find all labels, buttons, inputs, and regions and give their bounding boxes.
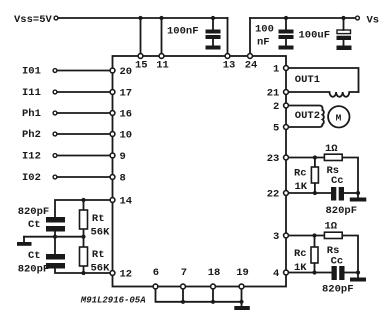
svg-text:24: 24 — [245, 59, 258, 71]
svg-text:100nF: 100nF — [167, 26, 199, 38]
wire lead Rc1 top — [314, 158, 316, 168]
wire lead capacitor C2 top — [285, 18, 287, 30]
svg-text:12: 12 — [120, 269, 133, 281]
ground stub upper network — [357, 193, 359, 198]
junction Ct mid rail — [53, 235, 57, 239]
pin 11 — [159, 54, 164, 59]
terminal Vs — [356, 16, 360, 20]
svg-text:Vss=5V: Vss=5V — [14, 14, 53, 26]
svg-text:16: 16 — [120, 109, 133, 121]
wire lead resistor Rt1 top — [83, 200, 85, 210]
IC U1 body — [113, 56, 287, 287]
svg-text:21: 21 — [267, 88, 280, 100]
svg-text:Rc: Rc — [294, 248, 307, 260]
wire lead resistor Rt2 bottom — [83, 266, 85, 273]
wire pin 3 to Rs2 — [286, 235, 324, 237]
junction Rc2 top — [312, 233, 316, 237]
junction Vss-11 — [159, 16, 163, 20]
svg-text:1Ω: 1Ω — [325, 143, 338, 155]
svg-text:2: 2 — [273, 101, 279, 113]
svg-text:56K: 56K — [91, 227, 111, 239]
pin 19 — [239, 284, 244, 289]
wire pin 2 to load OUT2 top — [286, 106, 323, 111]
svg-text:1: 1 — [273, 64, 279, 76]
ground C2 — [279, 46, 294, 50]
resistor Rt2 56K — [80, 247, 88, 266]
pin 24 — [248, 54, 253, 59]
wire input Ph2 — [57, 133, 112, 135]
wire lead resistor Rt1 bottom — [83, 229, 85, 237]
junction Rt mid rail — [81, 235, 85, 239]
pin 22 — [284, 191, 289, 196]
pin 23 — [284, 155, 289, 160]
svg-text:820pF: 820pF — [326, 205, 358, 217]
wire pin 19 drop to ground — [241, 287, 243, 307]
svg-text:11: 11 — [156, 59, 169, 71]
terminal I02 — [53, 175, 57, 179]
wire lead to pin 15 — [140, 18, 142, 56]
wire input I01 — [57, 70, 112, 72]
wire Cc1 to ground node — [344, 192, 358, 194]
wire Rs2 to corner — [342, 236, 358, 273]
wire input Ph1 — [57, 112, 112, 114]
wire Rs1 to corner — [342, 158, 358, 194]
wire pin 4 to Cc2 — [286, 272, 332, 274]
svg-text:I11: I11 — [22, 87, 41, 99]
svg-text:Rt: Rt — [92, 213, 105, 225]
capacitor Cc1 820pF plates — [331, 187, 336, 201]
wire lead capacitor C3 top — [343, 18, 345, 30]
pin 15 — [138, 54, 143, 59]
svg-text:I02: I02 — [22, 172, 41, 184]
capacitor Cc2 820pF plates — [332, 266, 337, 280]
ground bottom rail — [234, 306, 250, 310]
junction Vss-15 — [138, 16, 142, 20]
svg-text:23: 23 — [267, 153, 280, 165]
svg-text:56K: 56K — [91, 263, 111, 275]
wire capacitor C1 mid stub — [212, 38, 214, 46]
svg-text:I01: I01 — [22, 65, 41, 77]
pin 16 — [110, 111, 115, 116]
wire lead to pin 24 — [249, 18, 251, 56]
junction Vs-C3 — [341, 16, 345, 20]
wire capacitor Ct1 bottom lead — [54, 232, 56, 237]
junction gnd node upper — [356, 191, 360, 195]
svg-text:820pF: 820pF — [18, 264, 50, 276]
pin 18 — [211, 284, 216, 289]
svg-text:17: 17 — [120, 88, 133, 100]
svg-text:Ct: Ct — [28, 219, 41, 231]
ground stub lower network — [357, 273, 359, 278]
svg-text:100: 100 — [255, 24, 274, 36]
wire capacitor Ct2 top lead — [54, 237, 56, 254]
wire load OUT2 bottom to pin 5 — [286, 124, 323, 127]
pin 1 — [284, 66, 289, 71]
svg-text:nF: nF — [257, 37, 270, 49]
svg-text:1K: 1K — [295, 181, 308, 193]
wire lead capacitor C1 top — [212, 18, 214, 30]
junction Rc2 bottom — [312, 270, 316, 274]
svg-text:1K: 1K — [294, 262, 307, 274]
wire capacitor C3 mid stub — [343, 40, 345, 46]
wire pin 6 drop to ground rail — [156, 287, 242, 302]
svg-text:4: 4 — [273, 268, 279, 280]
svg-text:6: 6 — [153, 267, 159, 279]
pin 14 — [110, 198, 115, 203]
capacitor C3 100uF plus plate — [337, 30, 351, 34]
wire pin 22 to Cc1 — [286, 192, 331, 194]
resistor Rs2 1ohm — [324, 232, 342, 238]
pin 12 — [110, 271, 115, 276]
pin 3 — [284, 233, 289, 238]
resistor Rs1 1ohm — [324, 154, 342, 160]
junction rail pin 7 — [181, 300, 185, 304]
svg-text:18: 18 — [208, 267, 221, 279]
wire lead Rc2 top — [314, 236, 316, 248]
pin 10 — [110, 132, 115, 137]
resistor Rc1 1K — [311, 167, 318, 183]
svg-text:OUT2: OUT2 — [295, 110, 320, 122]
svg-text:5: 5 — [273, 123, 279, 135]
svg-text:Cc: Cc — [331, 256, 344, 268]
svg-text:100uF: 100uF — [299, 30, 331, 42]
ground timing network — [17, 242, 32, 246]
wire pin 23 to Rs1 — [286, 157, 324, 159]
svg-text:820pF: 820pF — [18, 206, 50, 218]
junction gnd node lower — [356, 270, 360, 274]
svg-text:I12: I12 — [22, 150, 41, 162]
junction Rc1 top — [313, 155, 317, 159]
svg-text:M: M — [336, 112, 342, 123]
svg-text:Ph2: Ph2 — [22, 129, 41, 141]
pin 20 — [110, 68, 115, 73]
svg-text:Rc: Rc — [294, 168, 307, 180]
pin 21 — [284, 90, 289, 95]
pin 4 — [284, 270, 289, 275]
svg-text:Ct: Ct — [28, 250, 41, 262]
wire capacitor C2 mid stub — [285, 38, 287, 46]
wire input I12 — [57, 155, 112, 157]
svg-text:820pF: 820pF — [322, 284, 354, 296]
motor M — [328, 106, 349, 127]
capacitor C3 100uF minus plate — [337, 36, 352, 40]
resistor Rt1 56K — [80, 210, 88, 229]
svg-text:8: 8 — [120, 173, 126, 185]
junction Vs-C2 — [284, 16, 288, 20]
junction rail pin 19 — [239, 300, 243, 304]
svg-text:19: 19 — [236, 267, 249, 279]
svg-text:1Ω: 1Ω — [325, 221, 338, 233]
svg-text:15: 15 — [135, 59, 148, 71]
wire lead Rc1 bottom — [314, 183, 316, 193]
pin 7 — [181, 284, 186, 289]
wire lead to pin 13 — [227, 18, 229, 56]
wire lead resistor Rt2 top — [83, 237, 85, 247]
pin 9 — [110, 153, 115, 158]
ground stub timing — [23, 237, 25, 242]
wire Vs rail — [250, 17, 356, 19]
wire Cc2 to ground node — [345, 272, 359, 274]
junction Rt1 top — [81, 198, 85, 202]
pin 17 — [110, 90, 115, 95]
wire pin 12 to timing network — [55, 269, 113, 274]
inductor winding OUT2 — [323, 110, 324, 124]
svg-text:9: 9 — [120, 151, 126, 163]
ground C3 — [337, 46, 352, 51]
svg-text:14: 14 — [120, 196, 133, 208]
terminal I01 — [53, 69, 57, 73]
pin 13 — [225, 54, 230, 59]
pin 5 — [284, 125, 289, 130]
capacitor Ct1 820pF plates — [46, 217, 65, 223]
terminal Vss — [54, 16, 58, 20]
junction Rc1 bottom — [313, 191, 317, 195]
capacitor C1 100nF plates — [206, 30, 221, 34]
svg-text:Vs: Vs — [367, 15, 380, 27]
pin 6 — [153, 284, 158, 289]
svg-text:7: 7 — [181, 267, 187, 279]
wire input I02 — [57, 176, 112, 178]
capacitor Ct2 820pF plates — [46, 254, 65, 260]
capacitor C2 100nF plates — [279, 30, 294, 34]
ground C1 — [206, 46, 221, 50]
wire pin 1 to load OUT1 — [286, 68, 359, 92]
junction rail pin 18 — [211, 300, 215, 304]
junction Rt2 bottom — [81, 271, 85, 275]
svg-text:M91L2916-05A: M91L2916-05A — [80, 295, 146, 305]
svg-text:Rt: Rt — [92, 249, 105, 261]
terminal Ph2 — [53, 132, 57, 136]
pin 2 — [284, 103, 289, 108]
svg-text:Ph1: Ph1 — [22, 108, 41, 120]
svg-text:3: 3 — [273, 231, 279, 243]
wire Vss rail — [58, 17, 228, 19]
ground upper network — [350, 198, 367, 202]
resistor Rc2 1K — [311, 247, 318, 263]
svg-text:13: 13 — [223, 59, 236, 71]
wire pin 14 to RC timing network — [55, 200, 113, 217]
inductor winding OUT1 — [286, 92, 359, 97]
wire lead to pin 11 — [161, 18, 163, 56]
wire lead Rc2 bottom — [314, 263, 316, 273]
terminal I12 — [53, 154, 57, 158]
svg-text:Cc: Cc — [331, 175, 344, 187]
wire input I11 — [57, 91, 112, 93]
svg-text:22: 22 — [267, 189, 280, 201]
ground lower network — [350, 278, 366, 282]
pin 8 — [110, 175, 115, 180]
svg-text:OUT1: OUT1 — [295, 74, 320, 86]
wire pin 7 drop — [182, 287, 184, 302]
terminal I11 — [53, 90, 57, 94]
junction Vss-C1 — [211, 16, 215, 20]
svg-text:10: 10 — [120, 130, 133, 142]
svg-text:20: 20 — [120, 66, 133, 78]
wire pin 18 drop — [212, 287, 214, 302]
terminal Ph1 — [53, 111, 57, 115]
wire mid rail timing network — [24, 236, 84, 238]
